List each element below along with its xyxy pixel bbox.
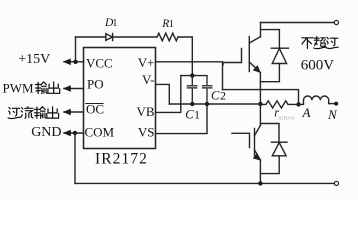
capacitor C1 [191, 76, 193, 104]
arrow at OC output [63, 109, 71, 116]
CJK glyph chu1 of PWM输出 [48, 82, 60, 93]
arrow at PWM output [63, 85, 71, 92]
wire COM pin to GND arrow [64, 132, 84, 134]
node junction C1 on sense rail [190, 102, 194, 106]
svg-text:V+: V+ [138, 55, 155, 70]
svg-text:PO: PO [87, 76, 104, 91]
wire top rail left segment [76, 36, 106, 38]
svg-text:2: 2 [220, 89, 226, 103]
svg-text:COM: COM [85, 124, 115, 139]
capacitor C2 [206, 76, 208, 104]
transistor Q2 emitter diagonal [255, 150, 261, 160]
node junction +15V rail [73, 60, 77, 64]
resistor r shunt [260, 101, 298, 108]
wire between D1 and R1 [113, 36, 157, 38]
terminal N [334, 102, 338, 106]
CJK glyph shu1 of 过流输出 [34, 107, 45, 119]
wire OC pin to arrow [64, 111, 84, 113]
svg-text:+15V: +15V [18, 52, 50, 67]
bottom rail wire [75, 182, 334, 184]
diode VD2 freewheel bottom [271, 142, 287, 156]
wire V- pin down to sense rail [156, 84, 170, 104]
CJK glyph guo4 of 过流输出 [8, 108, 20, 119]
CJK glyph shu1 of PWM输出 [36, 82, 47, 94]
svg-text:GND: GND [31, 125, 61, 140]
svg-text:1: 1 [112, 18, 117, 29]
transistor Q1 top IGBT gate lead and gate bar [223, 49, 242, 66]
wire inductor to N terminal [329, 103, 335, 105]
wire top diode anode to phase [260, 64, 279, 82]
wire bottom diode branch [260, 124, 279, 143]
transistor Q1 collector diagonal [249, 37, 260, 43]
wire VCC pin to +15V arrow [64, 61, 84, 63]
transistor Q1 collector lead [260, 23, 262, 37]
resistor R1 [157, 33, 178, 41]
IC U1 IR2172 box [84, 48, 156, 149]
transistor Q1 emitter diagonal [249, 62, 260, 73]
svg-text:IR2172: IR2172 [95, 151, 148, 168]
transistor Q2 channel bar [254, 129, 256, 158]
wire from R1 to corner down to cap top node [178, 37, 192, 76]
svg-text:C: C [185, 108, 194, 122]
ground rail vertical [74, 133, 76, 183]
diode D1 [106, 33, 113, 40]
transistor Q2 bottom IGBT gate lead and gate bar [232, 133, 250, 147]
svg-text:VB: VB [136, 104, 154, 119]
svg-text:JUTLVU: JUTLVU [278, 116, 295, 121]
node junction shunt left on phase [258, 102, 262, 106]
svg-text:V-: V- [142, 72, 155, 87]
wire V+ pin over to shunt right [156, 62, 223, 90]
wire bottom diode anode to emitter [260, 156, 279, 174]
svg-text:PWM: PWM [3, 81, 35, 96]
svg-text:1: 1 [194, 108, 200, 122]
CJK glyph chu1 of 过流输出 [47, 107, 59, 118]
wire V+ sense run to node A [223, 90, 299, 105]
inductor L motor phase [299, 96, 329, 104]
wire top rail to terminal [261, 22, 335, 24]
transistor Q1 channel bar [248, 37, 250, 72]
transistor Q2 collector diagonal [255, 126, 261, 136]
wire VB pin up to bootstrap node [156, 76, 181, 113]
diode VD1 freewheel top [271, 48, 288, 63]
CJK glyph liu2 of 过流输出 [21, 107, 33, 119]
terminal top 600V [334, 20, 338, 24]
arrow at GND [63, 130, 71, 137]
wire cap top rail [181, 75, 207, 77]
node junction A [296, 102, 300, 106]
transistor Q2 emitter lead [259, 160, 261, 183]
wire VS pin up to sense rail [156, 104, 208, 134]
wire phase vertical [259, 73, 261, 126]
CJK glyph guo4 of 不超过 [326, 37, 338, 48]
wire top diode branch [261, 30, 280, 49]
transistor Q1 emitter arrow [253, 65, 261, 73]
left +15V rail [75, 37, 77, 62]
svg-text:600V: 600V [301, 57, 335, 73]
svg-text:A: A [302, 105, 311, 120]
transistor Q2 emitter arrow [253, 153, 261, 161]
wire PO pin to PWM arrow [64, 88, 84, 90]
node junction emitter on bottom rail [258, 181, 262, 185]
CJK glyph chao1 of 不超过 [314, 37, 326, 49]
arrow at +15V input [63, 59, 71, 66]
svg-text:C: C [211, 89, 220, 103]
node junction R1 feed on cap top rail [190, 73, 194, 77]
svg-text:VCC: VCC [86, 56, 113, 71]
bottom rail terminal [334, 181, 338, 185]
svg-text:1: 1 [169, 19, 174, 30]
svg-text:VS: VS [138, 124, 155, 139]
node junction C2/VS on sense rail [205, 102, 209, 106]
CJK glyph bu4 of 不超过 [302, 38, 313, 49]
wire sense rail [169, 103, 260, 105]
node junction GND rail [73, 131, 77, 135]
svg-text:N: N [327, 107, 338, 122]
